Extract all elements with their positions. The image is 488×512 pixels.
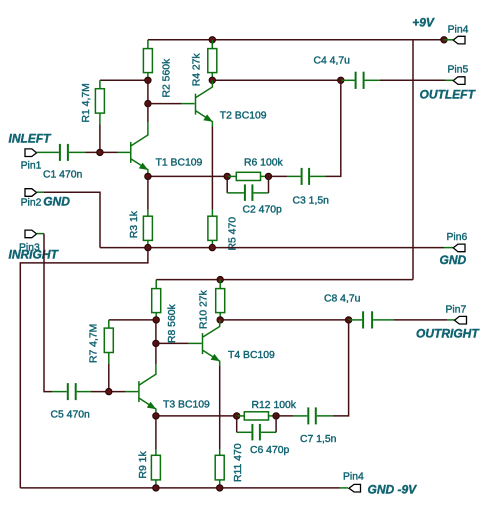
- pin Pin4: [453, 36, 465, 44]
- wire feedback row 2 left: [156, 415, 237, 417]
- node R3 bottom: [145, 244, 151, 250]
- node T1 emitter: [145, 173, 151, 179]
- wire GND rail: [100, 247, 444, 249]
- wire GND branch to bottom: [20, 248, 148, 488]
- pin Pin5: [453, 77, 465, 85]
- wire R1 bottom to base node: [99, 125, 101, 153]
- svg-text:T1 BC109: T1 BC109: [156, 158, 203, 169]
- svg-text:R1 4,7M: R1 4,7M: [81, 83, 92, 122]
- capacitor C2: [227, 176, 282, 215]
- node T3 base: [106, 388, 112, 394]
- wire pin7 lead: [447, 319, 455, 321]
- node R6 right: [265, 173, 271, 179]
- node T3 collector upper: [153, 317, 159, 323]
- svg-text:Pin6: Pin6: [447, 232, 468, 243]
- wire C5 to T3 base: [91, 391, 125, 393]
- svg-text:INLEFT: INLEFT: [9, 132, 53, 146]
- wire T3 collector to T4 base: [156, 342, 189, 344]
- node T1 base: [97, 149, 103, 155]
- svg-text:C1 470n: C1 470n: [43, 169, 83, 180]
- pin Pin2: [25, 189, 37, 197]
- wire pin4 lead: [444, 39, 453, 41]
- svg-text:GND: GND: [43, 195, 70, 209]
- node R9 bottom: [153, 485, 159, 491]
- svg-text:Pin4: Pin4: [343, 472, 364, 483]
- node R10 bottom: [217, 317, 223, 323]
- svg-text:T3 BC109: T3 BC109: [163, 400, 210, 411]
- capacitor C6: [237, 416, 290, 456]
- svg-text:C8 4,7u: C8 4,7u: [324, 294, 361, 305]
- node R4 bottom: [209, 77, 215, 83]
- node T1 collector lower: [145, 100, 151, 106]
- transistor T3: [139, 343, 210, 416]
- wire R9 top: [155, 416, 157, 449]
- wire pin2 lead: [37, 191, 44, 193]
- capacitor C3: [287, 168, 329, 207]
- svg-text:T4 BC109: T4 BC109: [228, 350, 275, 361]
- pin Pin6: [453, 244, 465, 252]
- wire pin6 lead: [444, 247, 453, 249]
- svg-text:C5 470n: C5 470n: [51, 410, 91, 421]
- wire R7 bottom to base node: [108, 364, 110, 392]
- svg-text:R7 4,7M: R7 4,7M: [89, 324, 100, 363]
- resistor R8: [152, 280, 178, 343]
- svg-text:Pin5: Pin5: [448, 65, 469, 76]
- resistor R3: [129, 210, 152, 248]
- node +9V junction Pin4: [441, 37, 447, 43]
- resistor R11: [215, 443, 244, 488]
- svg-text:C2 470p: C2 470p: [243, 204, 283, 215]
- svg-text:R9 1k: R9 1k: [138, 451, 149, 479]
- svg-text:Pin1: Pin1: [21, 161, 42, 172]
- wire bottom rail: [20, 487, 339, 489]
- svg-text:Pin3: Pin3: [19, 243, 40, 254]
- resistor R7: [89, 320, 114, 364]
- resistor R4: [192, 40, 217, 87]
- wire feedback row left: [148, 175, 227, 177]
- resistor R9: [138, 449, 160, 488]
- pin Pin1: [25, 149, 37, 157]
- node C8 left: [345, 317, 351, 323]
- wire R12 right to C7: [276, 415, 294, 417]
- wire OUTLEFT row: [212, 79, 341, 81]
- resistor R6: [227, 158, 283, 181]
- node +9V junction R4 top: [209, 37, 215, 43]
- transistor T4: [203, 320, 276, 366]
- svg-text:R5 470: R5 470: [228, 217, 239, 251]
- pin Pin7: [455, 316, 467, 324]
- svg-text:+9V: +9V: [412, 16, 435, 30]
- resistor R10: [198, 280, 224, 329]
- svg-text:GND: GND: [440, 253, 467, 267]
- svg-text:Pin7: Pin7: [446, 305, 467, 316]
- svg-text:R2 560k: R2 560k: [162, 58, 173, 98]
- wire C4 to pin5: [380, 79, 446, 81]
- wire T4 emitter down: [219, 366, 221, 449]
- wire R7 top row: [109, 319, 156, 321]
- resistor R12: [237, 400, 297, 420]
- capacitor C5: [51, 383, 92, 420]
- wire bottom pin4 lead: [340, 487, 349, 489]
- node R12 right: [273, 413, 279, 419]
- wire stage2 rail: [156, 279, 413, 281]
- capacitor C1: [37, 144, 86, 181]
- node R11 bottom: [217, 485, 223, 491]
- capacitor C7: [294, 407, 337, 445]
- svg-text:R12 100k: R12 100k: [252, 400, 297, 411]
- svg-text:C6 470p: C6 470p: [250, 445, 290, 456]
- node R10 top: [217, 276, 223, 282]
- resistor R5: [208, 210, 239, 251]
- node T3 emitter: [153, 413, 159, 419]
- resistor R1: [81, 80, 104, 124]
- transistor T2: [196, 80, 267, 126]
- svg-text:R4 27k: R4 27k: [192, 53, 203, 87]
- node R12 left: [234, 413, 240, 419]
- resistor R2: [143, 40, 172, 98]
- wire C1 to T1 base: [86, 151, 118, 153]
- svg-text:OUTLEFT: OUTLEFT: [420, 88, 477, 102]
- pin Pin3: [25, 230, 37, 238]
- wire T2 emitter down: [211, 127, 213, 210]
- svg-text:R10 27k: R10 27k: [198, 289, 209, 329]
- wire T1 collector to T2 base: [148, 103, 182, 105]
- wire C3 up to OUTLEFT node: [326, 80, 341, 176]
- node C4 left: [338, 77, 344, 83]
- capacitor C8: [324, 294, 394, 329]
- wire pin3 lead: [37, 233, 44, 235]
- wire pin5 lead: [446, 79, 454, 81]
- wire collector link 2: [155, 320, 157, 344]
- node R5 bottom: [209, 244, 215, 250]
- wire R1 top row: [100, 79, 148, 81]
- svg-text:OUTRIGHT: OUTRIGHT: [416, 327, 480, 341]
- transistor T1: [131, 104, 203, 177]
- svg-text:C3 1,5n: C3 1,5n: [293, 196, 330, 207]
- wire C7 up to OUTRIGHT node: [333, 320, 349, 416]
- pin Pin4 bottom: [349, 484, 361, 492]
- wire C8 to pin7: [394, 319, 447, 321]
- svg-text:R11 470: R11 470: [233, 443, 244, 482]
- svg-text:C7 1,5n: C7 1,5n: [300, 434, 337, 445]
- wire R3 top: [147, 176, 149, 209]
- wire +9V vertical feed: [412, 40, 414, 280]
- svg-text:C4 4,7u: C4 4,7u: [314, 56, 351, 67]
- svg-text:Pin4: Pin4: [448, 24, 469, 35]
- wire +9V rail: [148, 39, 444, 41]
- capacitor C4: [314, 56, 381, 89]
- svg-text:T2 BC109: T2 BC109: [220, 111, 267, 122]
- svg-text:Pin2: Pin2: [21, 198, 42, 209]
- wire GND from pin2: [44, 192, 100, 247]
- node T1 collector upper: [145, 77, 151, 83]
- wire INRIGHT down: [44, 234, 52, 392]
- wire OUTRIGHT row: [220, 319, 348, 321]
- svg-text:R3 1k: R3 1k: [129, 210, 140, 238]
- node R6 left: [224, 173, 230, 179]
- wire collector link: [147, 80, 149, 103]
- svg-text:R8 560k: R8 560k: [167, 303, 178, 343]
- node T3 collector lower: [153, 340, 159, 346]
- wire R6 right to C3: [269, 175, 288, 177]
- svg-text:R6 100k: R6 100k: [244, 158, 284, 169]
- svg-text:GND -9V: GND -9V: [368, 483, 418, 497]
